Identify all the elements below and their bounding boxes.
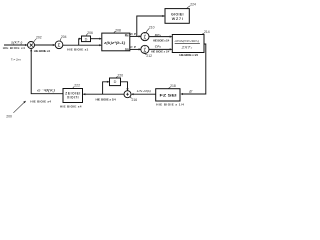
svg-text:DP: DP (130, 32, 136, 36)
svg-text:HIE BIOIE x 1/4: HIE BIOIE x 1/4 (151, 51, 170, 54)
svg-text:Re: Re (125, 33, 129, 37)
svg-text:202: 202 (36, 36, 42, 40)
svg-text:Im: Im (125, 47, 129, 51)
svg-text:s(kTₛ): s(kTₛ) (11, 40, 23, 44)
svg-text:212: 212 (146, 54, 152, 58)
svg-text:222: 222 (74, 83, 80, 87)
svg-text:200: 200 (6, 115, 12, 119)
svg-text:k=1: k=1 (143, 39, 146, 41)
svg-text:HIE BIOIE x4: HIE BIOIE x4 (60, 105, 82, 109)
svg-text:214: 214 (204, 30, 210, 34)
svg-text:Tₛ= 2ns: Tₛ= 2ns (11, 57, 22, 61)
svg-text:DPₖ: DPₖ (155, 33, 162, 37)
svg-text:XIOI7I: XIOI7I (67, 96, 79, 100)
svg-text:HIE BIOIE x 1/4: HIE BIOIE x 1/4 (96, 98, 116, 102)
svg-text:HIE BIOIE x 1/4: HIE BIOIE x 1/4 (179, 53, 198, 57)
svg-text:HIE BIOIE x4: HIE BIOIE x4 (30, 99, 51, 103)
svg-text:CPₖ: CPₖ (155, 44, 162, 48)
svg-text:208: 208 (115, 28, 121, 32)
svg-text:2πTₛ: 2πTₛ (180, 45, 193, 49)
svg-text:224: 224 (190, 2, 196, 6)
svg-text:HIE BIOIE x 1/4: HIE BIOIE x 1/4 (156, 103, 184, 107)
svg-text:1/N·Δf(k): 1/N·Δf(k) (137, 89, 152, 93)
svg-text:216: 216 (132, 98, 138, 102)
svg-text:HIE BIOIE x 1/4: HIE BIOIE x 1/4 (153, 40, 170, 43)
svg-text:220: 220 (118, 73, 124, 77)
svg-text:e⁻ʲθ̂(k): e⁻ʲθ̂(k) (37, 88, 55, 92)
svg-text:Δf: Δf (188, 90, 193, 94)
svg-text:Σ: Σ (58, 43, 61, 48)
svg-text:210: 210 (149, 25, 155, 29)
svg-text:z(k)z*(k-1): z(k)z*(k-1) (103, 41, 126, 45)
svg-text:FZ SEI: FZ SEI (160, 93, 177, 97)
svg-text:D: D (114, 80, 117, 84)
svg-text:206: 206 (87, 31, 93, 35)
svg-text:HIE BIOIE x4: HIE BIOIE x4 (34, 49, 51, 53)
svg-text:D: D (85, 37, 88, 41)
svg-text:HIE BIOIE x4: HIE BIOIE x4 (3, 46, 25, 50)
svg-text:HIE BIOIE x1: HIE BIOIE x1 (67, 47, 88, 51)
svg-text:ATAN(CPₖ/DPₖ): ATAN(CPₖ/DPₖ) (174, 39, 200, 43)
svg-text:204: 204 (61, 35, 67, 39)
svg-text:GIOIEI: GIOIEI (171, 12, 184, 16)
svg-text:218: 218 (170, 84, 176, 88)
svg-text:CP: CP (130, 45, 136, 49)
svg-text:WZ7I: WZ7I (172, 17, 183, 21)
